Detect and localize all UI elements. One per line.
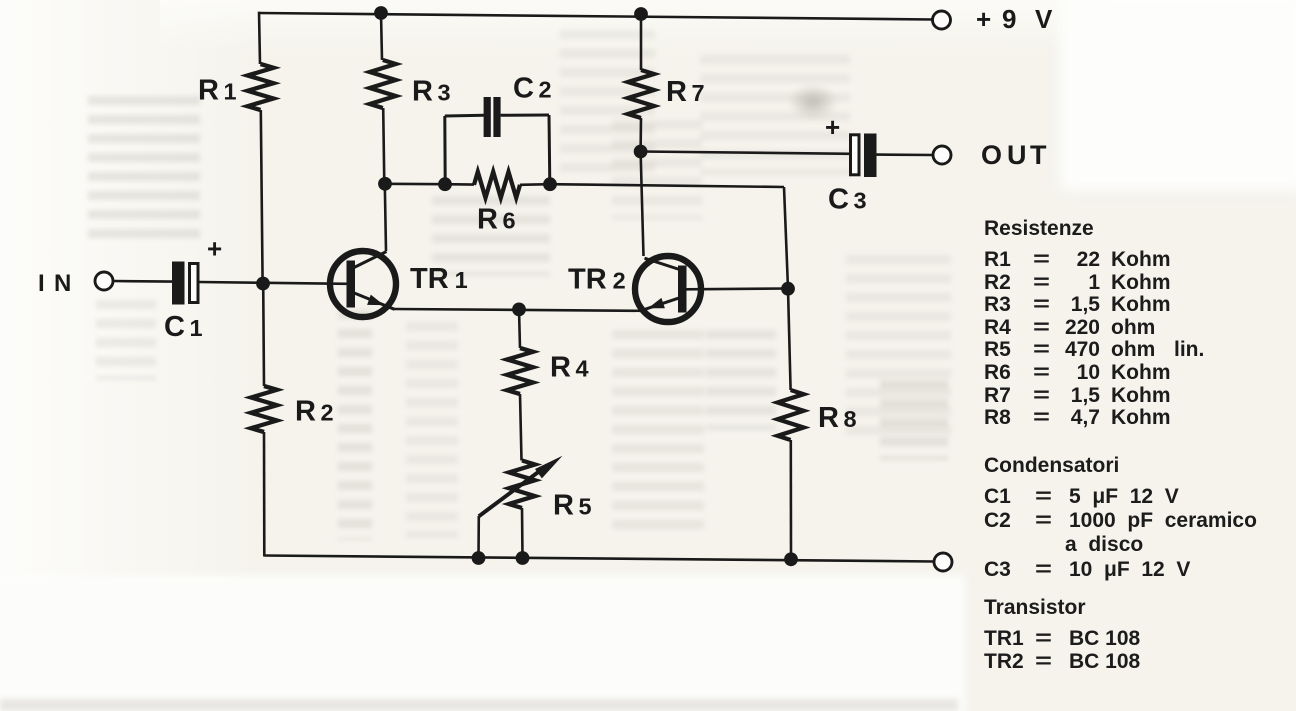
resistor R8 xyxy=(778,390,804,440)
label R1 xyxy=(198,75,237,107)
wire: input node down to R2 xyxy=(262,284,265,387)
node: ground / R5 wiper junction xyxy=(472,551,486,565)
resistor R7 xyxy=(628,70,654,118)
capacitor C1 xyxy=(172,262,198,305)
node: R6 left / C2 left junction xyxy=(438,177,452,191)
svg-text:OUT: OUT xyxy=(981,140,1047,170)
legend heading Condensatori xyxy=(984,454,1119,478)
label R5 xyxy=(553,490,592,522)
wire: R2 to ground rail corner xyxy=(263,432,266,557)
wire: R6 line left segment xyxy=(385,183,445,186)
legend heading Resistenze xyxy=(984,217,1094,241)
wire: TR1 emitter to TR2 emitter line xyxy=(394,309,641,311)
legend transistor values xyxy=(984,628,1296,673)
transistor TR2 xyxy=(635,256,701,322)
wire: top rail corner down to R1 xyxy=(259,12,260,64)
label + (C3 polarity) xyxy=(825,112,840,142)
label R2 xyxy=(295,396,334,428)
node: top rail / R7 column junction xyxy=(634,7,648,21)
label R3 xyxy=(412,76,451,108)
label IN xyxy=(38,270,71,297)
wire: R3 top lead xyxy=(381,13,382,60)
wire: TR2 collector lead xyxy=(641,152,644,257)
wire: R5 bottom lead xyxy=(521,508,524,558)
wire: R8 bottom lead xyxy=(789,440,792,559)
label + (C1 polarity) xyxy=(207,234,222,264)
wire: R1 to input node xyxy=(261,110,263,283)
label R6 xyxy=(477,204,516,236)
node: emitter line / R4 junction xyxy=(512,303,526,317)
wire: IN terminal to C1 xyxy=(113,280,172,283)
label TR1 xyxy=(410,263,468,295)
wire: TR1 collector up to R6 node xyxy=(385,184,386,251)
svg-text:C1: C1 xyxy=(164,311,203,343)
svg-text:+: + xyxy=(207,234,222,264)
label TR2 xyxy=(568,264,626,296)
wire: R6 left lead xyxy=(445,183,474,186)
label +9V xyxy=(976,4,1053,34)
svg-text:TR2: TR2 xyxy=(568,264,626,296)
svg-text:+: + xyxy=(825,112,840,142)
terminal: OUT xyxy=(933,146,951,164)
label R8 xyxy=(818,402,857,434)
legend capacitor values xyxy=(984,485,1296,582)
terminal: +9V xyxy=(933,11,951,29)
resistor R3 xyxy=(370,60,396,108)
wire: R7 top lead xyxy=(640,14,643,70)
resistor R1 xyxy=(248,64,274,110)
wire: C1 to TR1 base xyxy=(199,282,347,284)
resistor R6 xyxy=(474,172,520,198)
svg-text:R6: R6 xyxy=(477,204,516,236)
label R4 xyxy=(550,352,589,384)
wire: R7 to OUT node xyxy=(639,118,642,151)
node: TR2 base / R8 junction xyxy=(781,282,795,296)
terminal: IN xyxy=(95,272,113,290)
label C3 xyxy=(828,184,867,216)
svg-text:R5: R5 xyxy=(553,490,592,522)
label C2 xyxy=(513,73,552,105)
potentiometer R5 xyxy=(479,456,563,517)
wire: C2 right leg xyxy=(501,115,550,184)
node: TR1 base / C1 / R1 / R2 junction xyxy=(256,277,270,291)
svg-text:R1: R1 xyxy=(198,75,237,107)
page bottom edge shadow xyxy=(0,699,958,711)
svg-text:R3: R3 xyxy=(412,76,451,108)
svg-text:C2: C2 xyxy=(513,73,552,105)
capacitor C2 xyxy=(484,97,501,137)
wire: R3 bottom lead xyxy=(383,108,384,184)
wire: ground bottom rail xyxy=(264,556,934,562)
wire: R6 line to feedback corner xyxy=(550,184,784,187)
svg-text:R7: R7 xyxy=(666,76,705,108)
transistor TR1 xyxy=(330,251,396,317)
scanner smudge artifact xyxy=(788,84,838,120)
label OUT xyxy=(981,140,1047,170)
wire: R4 to R5 xyxy=(520,394,522,461)
wire: R6 right lead xyxy=(520,183,550,186)
svg-text:+9V: +9V xyxy=(976,4,1053,34)
svg-text:TR1: TR1 xyxy=(410,263,468,295)
resistor R4 xyxy=(507,348,533,394)
svg-text:R8: R8 xyxy=(818,402,857,434)
legend resistor values table xyxy=(984,249,1296,430)
capacitor C3 xyxy=(851,134,877,178)
legend heading Transistor xyxy=(984,596,1086,620)
wire: R5 wiper to ground xyxy=(477,516,480,558)
node: ground / R8 junction xyxy=(784,552,798,566)
svg-text:R2: R2 xyxy=(295,396,334,428)
wire: +9V supply top rail xyxy=(259,13,933,20)
wire: R8 top lead xyxy=(788,289,791,390)
node: R6 right / C2 right junction xyxy=(543,177,557,191)
label C1 xyxy=(164,311,203,343)
wire: R4 top lead xyxy=(519,309,520,348)
node: R7 / TR2 collector / OUT junction xyxy=(634,145,648,159)
svg-text:R4: R4 xyxy=(550,352,589,384)
node: TR1 collector / R3 / R6 junction xyxy=(378,177,392,191)
wire: feedback column (R6 line to TR2 base) xyxy=(784,187,788,289)
node: ground / R5 junction xyxy=(516,551,530,565)
terminal: ground xyxy=(934,553,952,571)
wire: TR2 base lead xyxy=(686,287,788,290)
svg-text:C3: C3 xyxy=(828,184,867,216)
wire: C3 to OUT terminal xyxy=(877,153,934,156)
resistor R2 xyxy=(251,386,277,432)
wire: C2 left leg xyxy=(445,115,484,184)
svg-text:IN: IN xyxy=(38,270,71,297)
node: top rail / R3 column junction xyxy=(374,6,388,20)
label R7 xyxy=(666,76,705,108)
wire: OUT line xyxy=(641,152,851,154)
